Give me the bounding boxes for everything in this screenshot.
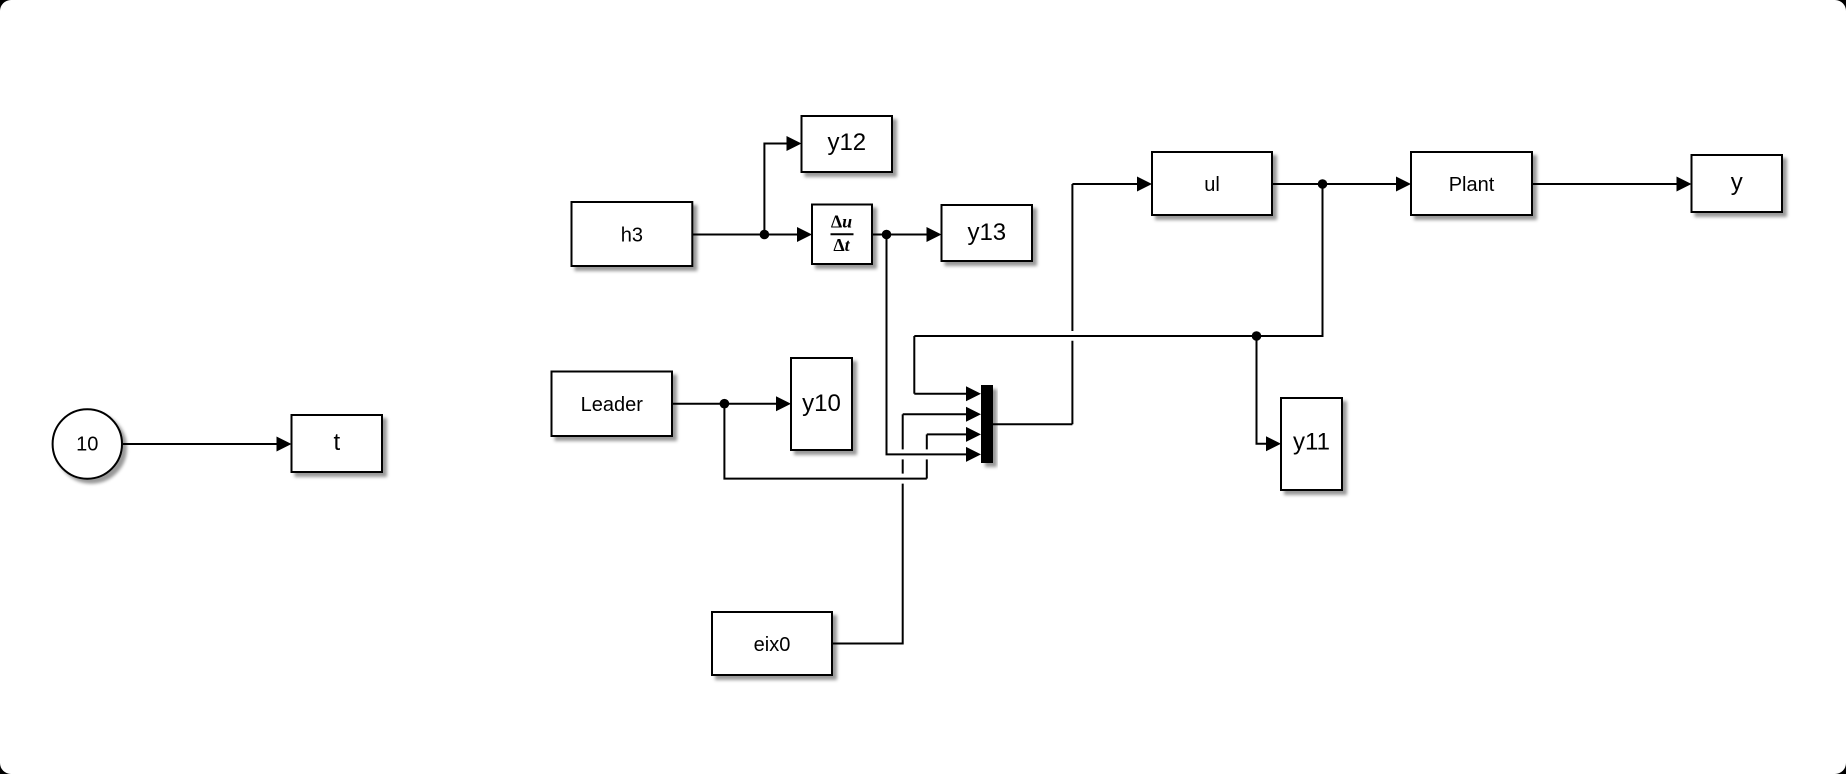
block Plant xyxy=(1411,152,1532,215)
block Leader xyxy=(552,372,673,437)
junction dot ul output xyxy=(1318,179,1328,189)
svg-text:y: y xyxy=(1731,169,1743,196)
block y xyxy=(1692,155,1783,212)
wire branch to y11 xyxy=(1257,336,1282,451)
constant circle 10 xyxy=(53,409,122,478)
block ul xyxy=(1152,152,1272,215)
svg-text:h3: h3 xyxy=(621,225,643,247)
svg-text:Plant: Plant xyxy=(1449,174,1495,196)
wire derivative output down to mux input 4 xyxy=(887,235,982,462)
wire h3 to derivative xyxy=(692,227,812,242)
junction dot Leader branch xyxy=(720,399,730,409)
junction dot feedback to y11 xyxy=(1252,331,1262,341)
svg-text:Leader: Leader xyxy=(581,394,644,416)
derivative block du/dt xyxy=(812,205,872,265)
wire eix0 to mux input 2 xyxy=(832,407,981,645)
wire ul to Plant xyxy=(1272,177,1411,192)
junction dot h3 branch xyxy=(760,230,770,240)
svg-text:y12: y12 xyxy=(827,129,866,156)
wire 10 to t xyxy=(123,437,292,452)
svg-text:y11: y11 xyxy=(1293,429,1330,456)
wire feedback from ul output to mux input 1 xyxy=(914,184,1322,401)
block y13 xyxy=(942,205,1033,261)
svg-text:ul: ul xyxy=(1204,174,1220,196)
svg-text:eix0: eix0 xyxy=(754,634,791,656)
block y10 xyxy=(791,358,852,450)
wire mux output to ul xyxy=(993,177,1152,425)
wire Leader to y10 xyxy=(672,396,791,411)
svg-text:10: 10 xyxy=(76,433,98,455)
svg-text:t: t xyxy=(333,429,340,456)
block eix0 xyxy=(712,612,832,675)
svg-text:Δt: Δt xyxy=(833,235,850,255)
wire branch to y12 xyxy=(764,136,801,235)
wire Plant to y xyxy=(1532,177,1692,192)
mux block xyxy=(981,385,993,463)
svg-text:y13: y13 xyxy=(967,219,1006,246)
block y12 xyxy=(802,116,893,172)
block y11 xyxy=(1281,398,1342,490)
svg-text:Δu: Δu xyxy=(831,212,852,232)
svg-text:y10: y10 xyxy=(802,390,841,417)
block h3 xyxy=(572,202,693,266)
junction dot derivative output xyxy=(882,230,892,240)
wire derivative to y13 xyxy=(872,227,942,242)
wire Leader branch to mux input 3 xyxy=(724,404,981,479)
block t xyxy=(292,415,383,472)
